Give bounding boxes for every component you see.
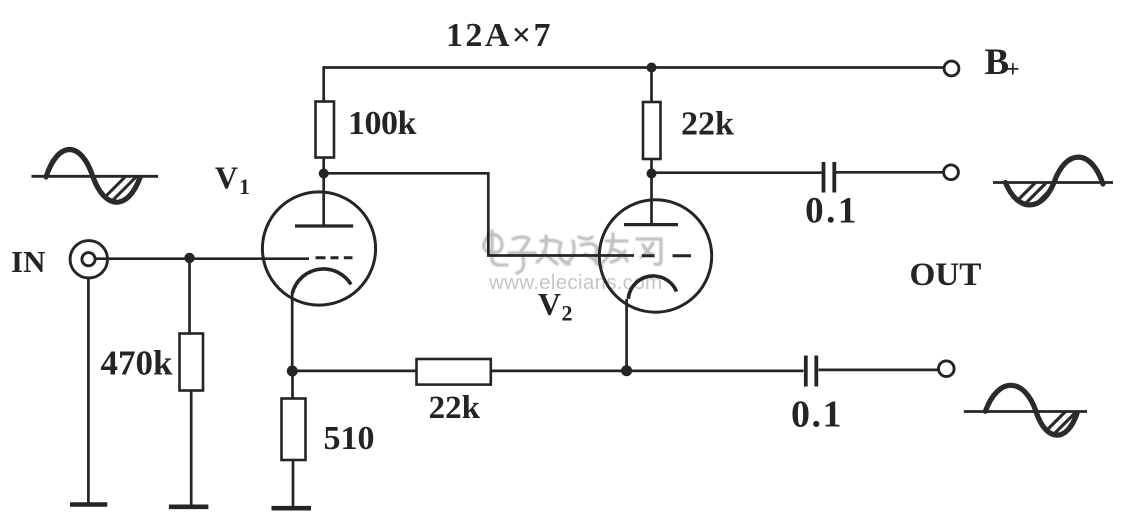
svg-text:12A×7: 12A×7: [446, 17, 553, 54]
svg-text:510: 510: [324, 420, 375, 457]
svg-text:OUT: OUT: [909, 256, 981, 293]
svg-text:2: 2: [562, 301, 573, 326]
svg-text:+: +: [1006, 57, 1020, 83]
svg-text:470k: 470k: [101, 344, 174, 383]
svg-text:IN: IN: [11, 244, 45, 279]
svg-text:V: V: [538, 286, 561, 322]
svg-text:1: 1: [239, 174, 250, 199]
svg-text:22k: 22k: [429, 390, 481, 426]
svg-text:100k: 100k: [348, 105, 417, 142]
svg-text:0.1: 0.1: [791, 394, 843, 436]
svg-text:V: V: [215, 159, 238, 195]
svg-text:0.1: 0.1: [805, 191, 859, 232]
svg-text:22k: 22k: [681, 106, 734, 143]
